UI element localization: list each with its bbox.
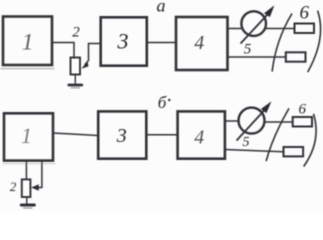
label 5 (row b) [243,135,250,150]
ground (row b) [26,197,28,203]
meter arrow (row a) [241,15,268,44]
label a [157,0,166,16]
svg-text:а: а [157,0,166,16]
label 6 (row b) [299,102,307,118]
wire block4 to meter (row b) [225,120,239,122]
wire block3 to block4 (row b) [146,134,177,136]
resistor 2 (row b) [22,179,31,197]
drop wire to resistor 2 (row b) [25,161,27,180]
boundary arc left (row a) [272,14,292,71]
label 6 (row a) [300,3,310,24]
wire meter to load (row b) [264,121,292,123]
scan shadow under block 1 row b [3,163,55,165]
boundary arc right (row a) [308,11,321,71]
svg-text:1: 1 [22,30,34,55]
label 2 (row b) [10,179,17,194]
svg-text:1: 1 [21,123,32,148]
svg-text:6: 6 [299,102,307,118]
resistor 2 (row a potentiometer body) [71,58,81,75]
label b [158,93,171,112]
label 5 (row a) [244,42,252,58]
svg-text:2: 2 [72,25,80,41]
block 4 (row a) [176,17,228,70]
wire block1 to block3 (row b) [53,133,98,136]
scan shadow under block 1 row a [1,68,54,70]
block 1 (row b) [4,113,53,160]
label 2 (row a) [72,25,80,41]
lower wire block4 to load (row a) [228,56,286,58]
wiper arrow of potentiometer 2 (row a) [85,44,89,65]
boundary arc right (row b) [304,115,316,167]
svg-text:3: 3 [117,28,129,53]
load resistor lower (row a) [286,52,306,61]
svg-text:6: 6 [300,3,310,24]
boundary arc left (row b) [266,109,288,161]
wire block1 to pot node [53,42,75,44]
wiper wire and arrow (row b) [38,161,42,188]
svg-text:б: б [158,93,167,112]
svg-text:2: 2 [10,179,17,194]
block 3 (row a) [101,17,147,65]
wire block3 to block4 [147,42,176,44]
block 1 (row a) [3,17,52,66]
lower wire block4 to load (row b) [225,150,284,152]
load resistor 6 upper (row a) [295,24,315,34]
load resistor lower (row b) [284,147,304,156]
meter 5 (row a) [241,11,266,36]
block 3 (row b) [98,111,146,158]
ground (row a) [74,75,76,84]
wire wiper to block 3 [89,43,101,45]
load resistor 6 upper (row b) [293,117,312,127]
wire meter to load 6 [265,28,295,30]
meter 5 (row b) [239,108,265,134]
svg-text:5: 5 [243,135,250,150]
wire block4 to meter 5 [228,28,243,30]
block 4 (row b) [178,111,225,158]
meter arrow (row b) [237,110,265,141]
svg-text:4: 4 [194,32,204,54]
svg-text:3: 3 [116,125,127,147]
svg-text:5: 5 [244,42,252,58]
svg-text:4: 4 [194,127,204,149]
wire node down to resistor R2 [73,43,75,59]
